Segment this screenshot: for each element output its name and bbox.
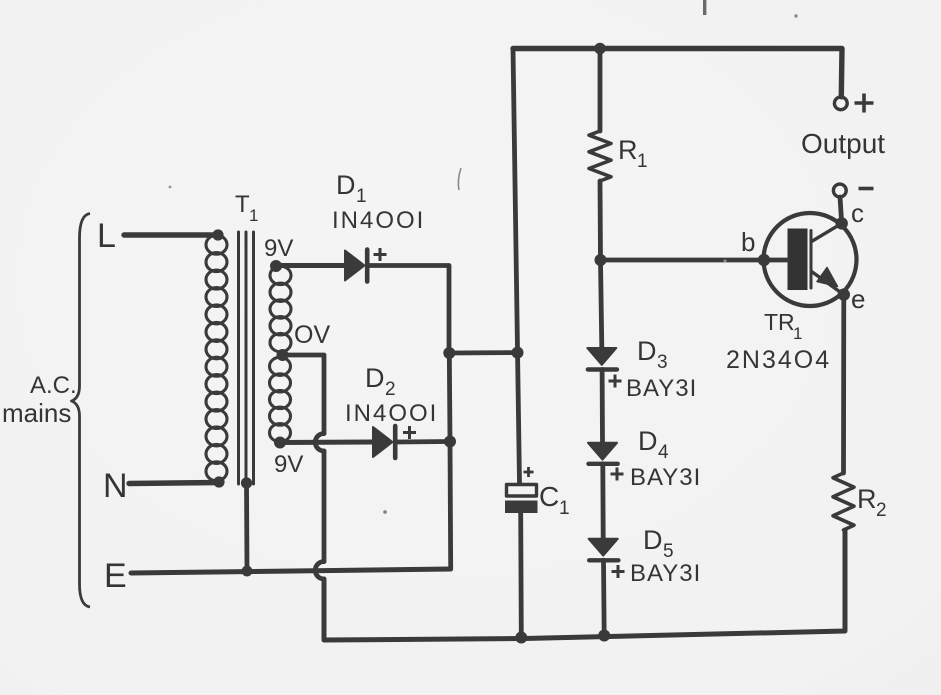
plus sign at D5 <box>612 565 625 578</box>
svg-text:T: T <box>235 191 250 218</box>
node 9V upper tap <box>270 260 282 272</box>
svg-text:BAY3I: BAY3I <box>630 464 701 491</box>
wire D5 to negative rail <box>601 560 607 635</box>
transformer T1 secondary lower winding <box>270 357 291 442</box>
svg-text:1: 1 <box>356 186 367 207</box>
wire core screen to E <box>244 483 249 571</box>
svg-text:5: 5 <box>663 541 674 562</box>
svg-text:OV: OV <box>294 321 330 349</box>
node 0V tap <box>277 349 289 361</box>
wire E lead <box>131 569 451 573</box>
wire D2 cathode to rectifier rail <box>397 439 451 444</box>
wire negative bottom rail <box>524 530 845 639</box>
svg-text:9V: 9V <box>264 235 293 262</box>
diode D1 1N4001 <box>345 251 365 281</box>
wire junction to reservoir rail <box>449 350 517 355</box>
svg-text:IN4OOI: IN4OOI <box>332 207 425 234</box>
node e <box>838 288 850 300</box>
svg-text:E: E <box>104 557 127 595</box>
svg-text:D: D <box>643 525 663 555</box>
terminal output - <box>833 184 846 197</box>
svg-text:1: 1 <box>793 324 802 343</box>
node L-primary-top <box>212 229 223 240</box>
resistor R1 <box>598 49 603 132</box>
wire base junction to TR1 base <box>601 258 765 263</box>
node rectifier junction upper <box>443 347 455 359</box>
svg-text:4: 4 <box>658 442 669 463</box>
node R1 top junction <box>594 43 606 55</box>
capacitor C1 electrolytic <box>507 485 537 497</box>
svg-text:R: R <box>618 135 638 165</box>
svg-text:BAY3I: BAY3I <box>626 375 697 402</box>
wire - terminal to collector <box>840 197 842 223</box>
svg-text:N: N <box>103 467 128 505</box>
node 9V lower tap <box>274 437 286 449</box>
wire hop over 9V wire <box>315 434 324 452</box>
wire hop over E wire <box>315 562 324 580</box>
terminal output + <box>834 97 847 110</box>
node c <box>836 217 848 229</box>
svg-text:D: D <box>638 426 658 456</box>
svg-text:A.C.: A.C. <box>30 372 77 399</box>
wire D3 to D4 <box>600 370 605 443</box>
transformer T1 core laminations <box>239 232 254 484</box>
wire D1 cathode to rectifier rail <box>369 266 450 351</box>
wire positive top rail <box>513 49 842 97</box>
plus sign at D3 <box>609 375 622 388</box>
svg-text:2N34O4: 2N34O4 <box>726 346 831 374</box>
wire rectifier rail vertical <box>447 353 453 442</box>
svg-text:c: c <box>851 198 864 228</box>
plus sign at D2 <box>403 426 416 439</box>
svg-text:1: 1 <box>249 206 258 225</box>
svg-text:3: 3 <box>657 352 668 373</box>
wire TR1 emitter lead <box>812 272 844 295</box>
plus sign at D1 <box>374 248 387 261</box>
diode D2 1N4001 <box>373 427 393 457</box>
transistor TR1 outline <box>764 213 857 306</box>
svg-text:TR: TR <box>764 309 795 335</box>
node rectifier junction lower <box>444 436 456 448</box>
diode D5 BAY31 <box>589 539 618 556</box>
wire L lead <box>124 232 218 237</box>
svg-text:BAY3I: BAY3I <box>630 560 701 587</box>
plus sign at C1 <box>524 467 534 477</box>
transformer T1 secondary upper winding <box>270 266 291 352</box>
svg-text:L: L <box>97 217 116 255</box>
svg-text:R: R <box>857 484 877 514</box>
scan speck <box>383 510 387 514</box>
svg-text:e: e <box>851 284 865 314</box>
svg-text:D: D <box>336 170 356 200</box>
plus sign at D4 <box>611 468 624 481</box>
svg-text:1: 1 <box>559 498 570 519</box>
node core screen top of earth lead <box>241 477 252 488</box>
minus sign at output - <box>859 187 874 191</box>
node N-primary-bottom <box>213 476 224 487</box>
wire rectifier rail to E corner <box>448 442 454 570</box>
scan scratch <box>458 168 461 190</box>
wire 9V lower tap to diode D2 <box>280 440 373 446</box>
svg-text:C: C <box>539 481 559 512</box>
node b <box>758 254 770 266</box>
resistor R2 <box>833 473 854 530</box>
svg-text:2: 2 <box>385 379 396 400</box>
transformer T1 primary winding <box>206 235 227 481</box>
wire reservoir vertical down to C1 <box>513 49 520 484</box>
wire D4 to D5 <box>600 464 605 539</box>
svg-text:2: 2 <box>876 500 887 521</box>
plus sign at output + <box>855 94 874 113</box>
diode D4 BAY31 <box>588 443 617 460</box>
diode D3 BAY31 <box>587 348 616 365</box>
svg-text:9V: 9V <box>274 451 303 478</box>
wire TR1 collector lead <box>812 223 842 241</box>
node E-core-screen <box>242 566 253 577</box>
wire TR1 base lead <box>764 258 788 263</box>
wire 0V tap down to negative rail (with hops) <box>283 355 325 434</box>
wire C1 to negative rail <box>518 513 523 638</box>
wire emitter down to R2 <box>841 295 846 473</box>
wire 9V tap to diode D1 <box>276 263 345 268</box>
transistor TR1 base bar <box>788 229 808 291</box>
scan speck top center <box>703 0 706 15</box>
brace A.C. mains <box>72 214 91 608</box>
wire N lead <box>129 483 219 484</box>
emitter arrow <box>817 268 838 287</box>
node D5 negative rail junction <box>598 630 610 642</box>
svg-text:IN4OOI: IN4OOI <box>345 400 438 427</box>
svg-text:Output: Output <box>801 128 885 159</box>
svg-text:mains: mains <box>2 398 71 428</box>
svg-text:D: D <box>637 336 657 366</box>
wire base junction down to D3 <box>601 260 602 348</box>
node reservoir rail junction <box>512 347 524 359</box>
svg-text:D: D <box>365 363 385 393</box>
node base junction <box>595 254 607 266</box>
svg-text:1: 1 <box>637 151 648 172</box>
node C1 negative rail junction <box>515 632 527 644</box>
svg-text:b: b <box>741 227 755 257</box>
